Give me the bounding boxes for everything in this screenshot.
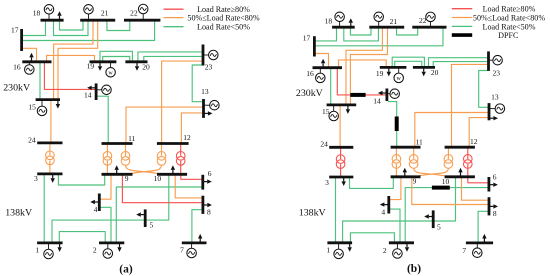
generator G16 b (319, 68, 321, 78)
bus 4 (98, 194, 101, 212)
bus 10 b (445, 175, 475, 178)
svg-text:4: 4 (381, 208, 385, 217)
load arrow bus 15 (57, 100, 59, 104)
legend DPFC bar b (452, 33, 472, 37)
wire 7-8 b (478, 211, 488, 243)
transformer 9-12 b (447, 147, 449, 159)
bus 3 (37, 172, 62, 175)
svg-text:15: 15 (28, 103, 36, 112)
wire 13-23 b (479, 71, 488, 108)
svg-text:5: 5 (150, 221, 154, 230)
load arrow bus 4 b (384, 204, 388, 206)
load arrow bus 8 b (489, 205, 493, 207)
svg-text:6: 6 (493, 172, 497, 181)
load arrow bus 5 (141, 214, 145, 216)
wire 4-9 (100, 174, 111, 199)
bus 7 b (466, 241, 493, 244)
bus 5 b (432, 210, 435, 228)
svg-text:11: 11 (128, 134, 135, 143)
svg-text:(b): (b) (407, 263, 421, 275)
wire 6-10 b (468, 177, 488, 183)
bus 15 (36, 98, 60, 101)
wire 8-9 (122, 174, 201, 202)
wire 17-22 b (316, 28, 443, 46)
bus 19 (90, 60, 117, 63)
generator G16 (28, 62, 30, 70)
load arrow bus 10 (172, 170, 174, 174)
wire 12-13 b (469, 118, 488, 148)
bus 14 b (385, 89, 388, 102)
load arrow bus 4 (95, 201, 99, 203)
svg-text:2: 2 (93, 246, 97, 255)
generator G7 b (476, 243, 478, 253)
wire 8-10 b (462, 177, 488, 200)
wire 18-21 first circuit b (350, 28, 371, 35)
bus 8 (201, 196, 204, 214)
svg-text:8: 8 (207, 207, 211, 216)
svg-text:138kV: 138kV (299, 208, 327, 219)
bus 13 b (488, 103, 491, 120)
load arrow bus 7 b (483, 239, 485, 243)
generator G23 (203, 54, 213, 56)
bus 17 b (313, 36, 316, 56)
DPFC on line 14-16 (350, 93, 365, 97)
wire 18-21 first circuit (60, 21, 84, 30)
wire 8-9 b (412, 177, 488, 205)
wire 13-23 (192, 65, 202, 102)
generator G18 b (339, 17, 341, 27)
wire 15-16 (39, 62, 41, 100)
svg-text:10: 10 (442, 177, 450, 186)
wire 8-10 (175, 174, 202, 198)
bus 20 b (413, 66, 435, 69)
svg-text:20: 20 (142, 63, 150, 72)
wire 16-17 b (316, 54, 329, 68)
svg-text:15: 15 (322, 107, 330, 116)
load arrow bus 10 b (460, 172, 462, 176)
wire 2-6 b (405, 188, 488, 243)
svg-text:11: 11 (416, 138, 423, 147)
transformer 9-12 (161, 144, 163, 156)
svg-text:17: 17 (11, 26, 19, 35)
svg-text:23: 23 (205, 62, 213, 71)
svg-text:w: w (397, 76, 402, 82)
wire 19-20 first circuit b (392, 57, 424, 67)
load arrow bus 2 b (406, 243, 408, 247)
bus 14 (95, 83, 98, 100)
bus 15 b (327, 104, 357, 107)
bus 4 b (387, 196, 390, 214)
load arrow bus 2 (119, 243, 121, 247)
wire 6-10 (181, 174, 202, 179)
bus 10 (157, 173, 187, 176)
wire 2-4 b (390, 209, 400, 243)
bus 9 (102, 173, 133, 176)
bus 1 b (327, 241, 352, 244)
svg-text:1: 1 (36, 246, 40, 255)
svg-text:Load Rate≥80%: Load Rate≥80% (483, 5, 536, 14)
svg-text:Load Rate<50%: Load Rate<50% (197, 23, 250, 32)
generator G19 b (398, 67, 400, 78)
svg-text:12: 12 (470, 137, 478, 146)
svg-text:24: 24 (320, 139, 328, 148)
wire 21-22 b (397, 28, 418, 35)
svg-text:8: 8 (493, 209, 497, 218)
wire 16-17 (23, 48, 37, 62)
bus 2 b (389, 241, 414, 244)
wire 15-16 b (330, 68, 332, 105)
wire 2-6 (116, 187, 201, 243)
generator G15 b (333, 105, 335, 116)
bus 6 (201, 175, 204, 190)
svg-text:7: 7 (180, 246, 184, 255)
wire 17-22 (23, 21, 155, 41)
transformer 9-11 b (395, 147, 397, 159)
load arrow bus 16 (31, 57, 33, 61)
wire 12-23 (162, 61, 202, 143)
svg-text:230kV: 230kV (296, 88, 324, 99)
DPFC on line 11-14 (395, 117, 399, 132)
svg-text:20: 20 (431, 68, 439, 77)
bus 20 (125, 60, 147, 63)
wire 3-9 (58, 174, 104, 185)
wire 14-16 (44, 62, 95, 89)
svg-text:24: 24 (28, 135, 36, 144)
wire 17-18 (23, 20, 46, 35)
svg-text:7: 7 (462, 246, 466, 255)
transformer 10-12 (180, 144, 182, 156)
bus 11 (102, 142, 133, 145)
svg-text:14: 14 (373, 97, 381, 106)
load arrow bus 13 (204, 112, 208, 114)
wire 15-24 (50, 100, 52, 143)
wire 12-23 b (452, 64, 488, 147)
wire 17-18 b (316, 28, 337, 41)
svg-text:17: 17 (303, 34, 311, 43)
svg-text:3: 3 (325, 178, 329, 187)
generator G13 (204, 104, 215, 106)
generator G2 b (396, 243, 398, 254)
svg-text:Load Rate<50%: Load Rate<50% (483, 22, 536, 31)
bus 22 b (412, 26, 446, 29)
svg-text:4: 4 (94, 205, 98, 214)
svg-text:10: 10 (154, 174, 162, 183)
svg-text:1: 1 (326, 245, 330, 254)
load arrow bus 6 (203, 181, 207, 183)
legend line load>=80% b (452, 8, 472, 10)
generator G1 (48, 243, 50, 254)
wire 20-23 first circuit b (429, 58, 488, 68)
svg-text:21: 21 (101, 8, 109, 17)
svg-text:12: 12 (183, 133, 191, 142)
bus 11 b (391, 146, 421, 149)
svg-text:18: 18 (325, 17, 333, 26)
bus 16 b (313, 66, 343, 69)
svg-text:5: 5 (437, 223, 441, 232)
wire 16-19 (47, 55, 95, 61)
generator G7 (191, 243, 193, 253)
transformer 9-11 (106, 144, 108, 156)
bus 7 (182, 241, 207, 244)
bus 22 (124, 19, 160, 22)
load arrow bus 20 (136, 62, 138, 66)
wire 20-23 second circuit b (433, 62, 487, 68)
load arrow bus 3 b (343, 177, 345, 181)
generator G19 (110, 62, 112, 73)
load arrow bus 20 b (423, 67, 425, 71)
wire 1-2 (59, 232, 105, 243)
load arrow bus 5 b (429, 216, 433, 218)
svg-text:23: 23 (492, 69, 500, 78)
bus 12 (157, 142, 189, 145)
wire 7-8 (192, 210, 202, 243)
generator G15 (41, 100, 43, 111)
wire 18-21 second circuit (54, 21, 89, 36)
svg-text:21: 21 (390, 17, 398, 26)
DPFC on line 2-6 (432, 186, 450, 190)
load arrow bus 15 b (347, 105, 349, 109)
svg-text:16: 16 (306, 69, 314, 78)
bus 18 b (332, 26, 355, 29)
wire 1-5 and 5-10 (52, 174, 169, 243)
bus 9 b (391, 175, 421, 178)
svg-text:13: 13 (201, 87, 209, 96)
svg-text:16: 16 (13, 62, 21, 71)
wire 19-20 second circuit b (395, 61, 422, 67)
wire 2-4 (100, 207, 111, 243)
bus 18 (41, 19, 64, 22)
wire 15-24 b (339, 105, 341, 147)
wire 11-13 b (415, 113, 488, 148)
svg-text:13: 13 (491, 93, 499, 102)
svg-text:(a): (a) (119, 264, 133, 276)
svg-text:18: 18 (33, 8, 41, 17)
generator G23 b (489, 59, 498, 61)
load arrow bus 18 b (350, 23, 352, 27)
svg-text:138kV: 138kV (5, 208, 33, 219)
load arrow bus 7 (199, 239, 201, 243)
load arrow bus 19 b (388, 67, 390, 71)
generator G14 (96, 89, 106, 91)
wire 1-3 (43, 174, 45, 243)
wire 3-9 b (350, 177, 394, 189)
wire 15-21 second circuit b (350, 28, 387, 105)
legend line load>=80% (164, 8, 184, 10)
generator G21 (88, 9, 90, 20)
generator G18 (48, 9, 50, 20)
bus 2 (99, 241, 124, 244)
bus 13 (202, 99, 205, 118)
load arrow bus 1 (59, 243, 61, 247)
wire 11-14 (97, 96, 108, 143)
load arrow bus 6 b (489, 184, 493, 186)
load arrow bus 16 b (322, 63, 324, 67)
transformer 24-3 b (340, 147, 342, 159)
wire 15-21 first circuit (54, 21, 93, 100)
wire 11-13 (126, 107, 202, 143)
bus 5 (144, 209, 147, 227)
load arrow bus 18 (59, 16, 61, 20)
svg-text:230kV: 230kV (3, 82, 31, 93)
legend line 50-80% b (452, 17, 472, 19)
svg-text:50%≤Load Rate<80%: 50%≤Load Rate<80% (473, 13, 545, 22)
svg-text:19: 19 (87, 61, 95, 70)
svg-text:9: 9 (413, 177, 417, 186)
generator G22 (142, 9, 144, 20)
bus 23 (202, 45, 205, 66)
load arrow bus 1 b (349, 243, 351, 247)
bus 19 b (380, 66, 407, 69)
legend line load<50% b (452, 25, 472, 27)
generator G1 b (338, 243, 340, 254)
wire 1-3 b (335, 177, 337, 243)
generator G2 (107, 243, 109, 254)
load arrow bus 14 (92, 87, 96, 89)
transformer 24-3 (49, 143, 51, 155)
bus 12 b (445, 146, 475, 149)
bus 21 (80, 19, 115, 22)
svg-text:3: 3 (34, 174, 38, 183)
generator G13 b (489, 108, 500, 110)
bus 21 b (369, 26, 404, 29)
bus 1 (37, 241, 63, 244)
bus 3 b (329, 176, 353, 179)
svg-text:14: 14 (84, 91, 92, 100)
transformer 10-11 (125, 144, 127, 156)
load arrow bus 8 (203, 204, 207, 206)
wire 4-9 b (390, 177, 401, 200)
transformer 10-11 b (413, 147, 415, 159)
wire 19-20 second circuit (103, 57, 130, 62)
wire 15-21 first circuit b (346, 28, 382, 105)
bus 16 (22, 60, 51, 63)
wire 18-21 second circuit b (344, 28, 379, 41)
svg-text:9: 9 (125, 174, 129, 183)
wire 14-16 b (337, 68, 386, 95)
generator G22 b (430, 17, 432, 27)
svg-text:6: 6 (208, 169, 212, 178)
generator G21 b (378, 17, 380, 27)
load arrow bus 9 (116, 170, 118, 174)
wire 20-23 second circuit (144, 56, 202, 61)
svg-text:50%≤Load Rate<80%: 50%≤Load Rate<80% (187, 14, 259, 23)
load arrow bus 14 b (383, 92, 387, 94)
legend line 50-80% (164, 17, 184, 19)
wire 1-5 and 5-10 b (343, 177, 456, 243)
svg-text:DPFC: DPFC (498, 31, 518, 40)
load arrow bus 3 (52, 174, 54, 178)
bus 17 (20, 29, 23, 51)
wire 15-21 second circuit (58, 21, 98, 100)
bus 6 b (487, 177, 490, 192)
generator G14 b (387, 93, 395, 95)
load arrow bus 13 b (489, 117, 493, 119)
wire 20-23 first circuit (138, 52, 202, 62)
bus 8 b (488, 197, 491, 215)
svg-text:22: 22 (130, 8, 138, 17)
wire 11-14 b (388, 102, 397, 148)
bus 24 b (329, 146, 353, 149)
legend line load<50% (164, 26, 184, 28)
load arrow bus 19 (99, 62, 101, 66)
wire 19-20 first circuit (100, 51, 132, 62)
svg-text:w: w (108, 70, 113, 76)
wire 16-19 b (339, 60, 387, 68)
bus 23 b (487, 51, 490, 71)
svg-text:2: 2 (383, 246, 387, 255)
svg-text:19: 19 (376, 69, 384, 78)
svg-text:22: 22 (419, 16, 427, 25)
bus 24 (37, 141, 62, 144)
wire 1-2 b (350, 233, 394, 243)
wire 12-13 (181, 113, 202, 144)
load arrow bus 9 b (404, 172, 406, 176)
transformer 10-12 b (467, 147, 469, 159)
wire 21-22 (107, 21, 130, 31)
